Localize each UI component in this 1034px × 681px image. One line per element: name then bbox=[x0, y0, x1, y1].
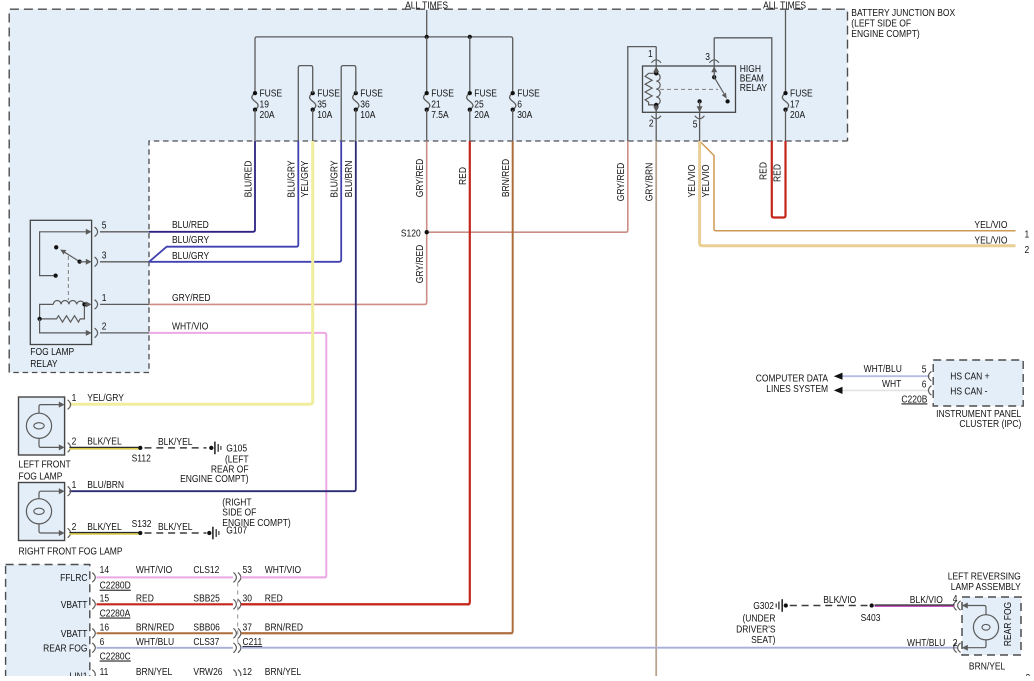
svg-text:5: 5 bbox=[922, 364, 927, 376]
svg-text:GRY/RED: GRY/RED bbox=[414, 245, 426, 284]
right front fog lamp bulb bbox=[26, 499, 51, 524]
high beam relay coil (inductor) bbox=[656, 73, 660, 105]
svg-text:12: 12 bbox=[243, 666, 252, 676]
left front fog lamp box bbox=[19, 397, 65, 455]
svg-text:RELAY: RELAY bbox=[740, 82, 768, 94]
svg-text:VRW26: VRW26 bbox=[193, 666, 222, 676]
svg-text:CLS12: CLS12 bbox=[193, 564, 219, 576]
wire RED fuse17 loop to relay pin 3 bbox=[772, 141, 786, 218]
svg-text:CLS37: CLS37 bbox=[193, 636, 219, 648]
fuse F25 20A bbox=[467, 93, 473, 110]
splice S132 bbox=[138, 531, 142, 535]
svg-text:BLU/BRN: BLU/BRN bbox=[343, 160, 355, 197]
wire GRY/RED fuse 21 to S120 bbox=[426, 141, 428, 232]
svg-text:RED: RED bbox=[758, 162, 770, 180]
high beam relay switch blade bbox=[714, 77, 724, 93]
svg-text:VBATT: VBATT bbox=[61, 628, 88, 640]
pin 2 of right front fog lamp bbox=[59, 530, 65, 536]
node coil top (pin 1) bbox=[654, 71, 658, 75]
wire WHT HS CAN - bbox=[842, 389, 930, 391]
splice S112 bbox=[138, 446, 142, 450]
node NC contact bbox=[54, 245, 58, 249]
svg-text:GRY/BRN: GRY/BRN bbox=[644, 163, 656, 202]
wire BRN/RED fuse 6 to VBATT row bbox=[241, 141, 513, 633]
left front fog lamp bulb bbox=[26, 413, 51, 438]
inner dashed border bbox=[9, 141, 847, 373]
svg-text:2: 2 bbox=[72, 436, 77, 448]
svg-text:2: 2 bbox=[953, 637, 958, 649]
svg-text:YEL/GRY: YEL/GRY bbox=[299, 160, 311, 197]
wire pin3 internal bbox=[80, 261, 89, 263]
svg-text:3: 3 bbox=[705, 51, 710, 63]
svg-text:C2280D: C2280D bbox=[100, 580, 131, 592]
wire fog relay pin2 lead bbox=[100, 332, 149, 334]
svg-text:BLK/VIO: BLK/VIO bbox=[823, 594, 856, 606]
ground G105 bbox=[209, 446, 213, 450]
wire pin1 internal bbox=[84, 303, 88, 305]
pin 6 row bbox=[92, 643, 95, 653]
outer dashed border bbox=[9, 9, 847, 372]
svg-text:WHT: WHT bbox=[882, 378, 901, 390]
svg-text:7.5A: 7.5A bbox=[431, 109, 449, 121]
wire staple feed to fuse 35 bbox=[298, 66, 312, 141]
wire BLK/YEL S112 to G105 (dashed) bbox=[145, 447, 207, 449]
wire GRY/RED S120 to high beam relay coil bbox=[427, 141, 628, 232]
in-line connector arcs bbox=[233, 643, 236, 653]
in-line connector arcs bbox=[233, 670, 236, 680]
dashed actuation link bbox=[660, 88, 718, 90]
splice S120 bbox=[425, 230, 429, 234]
svg-text:G105: G105 bbox=[226, 443, 247, 455]
in-line connector arcs bbox=[233, 572, 236, 582]
wire fuse 21 output bbox=[426, 110, 428, 141]
pin 4 of reversing lamp bbox=[962, 603, 968, 609]
svg-text:BRN/RED: BRN/RED bbox=[500, 159, 512, 197]
wire YEL/VIO relay pin5 to right pin 2 bbox=[700, 141, 1016, 246]
node switch common pin 3 bbox=[77, 259, 81, 263]
svg-text:5: 5 bbox=[693, 119, 698, 131]
wire BRN/RED right segment bbox=[241, 632, 513, 634]
ground G107 bbox=[207, 531, 211, 535]
svg-text:BLK/YEL: BLK/YEL bbox=[158, 436, 192, 448]
pin 15 row bbox=[92, 600, 95, 610]
svg-text:ALL TIMES: ALL TIMES bbox=[763, 0, 806, 12]
svg-text:2: 2 bbox=[1025, 244, 1030, 256]
svg-text:S112: S112 bbox=[132, 453, 151, 465]
fog relay resistor (parallel) bbox=[40, 304, 85, 322]
svg-text:16: 16 bbox=[100, 622, 109, 634]
wire BLU/GRY branch 2 to fuse 36 bbox=[149, 141, 341, 262]
wire fuse 25 output bbox=[469, 110, 471, 141]
junction node on bus at fuse 25 bbox=[468, 35, 472, 39]
node B coil/pin2 bbox=[37, 317, 41, 321]
pin 1 of fog lamp relay bbox=[86, 301, 92, 307]
svg-text:WHT/VIO: WHT/VIO bbox=[172, 321, 208, 333]
splice S403 bbox=[870, 603, 874, 607]
svg-text:10A: 10A bbox=[317, 109, 333, 121]
wire GRY/BRN relay pin2 down off page bbox=[655, 141, 657, 676]
wire BLK/YEL right lamp to S132 bbox=[69, 532, 140, 534]
wire fuse 19 output (gray inside box) bbox=[254, 110, 256, 141]
wire fuse 6 output bbox=[512, 110, 514, 141]
svg-text:4: 4 bbox=[953, 593, 958, 605]
in-line connector arcs bbox=[233, 628, 236, 638]
svg-text:14: 14 bbox=[100, 564, 110, 576]
wire fog relay pin5 lead bbox=[100, 231, 149, 233]
wire fuse 17 output bbox=[785, 110, 787, 141]
fuse F19 20A bbox=[252, 93, 258, 110]
pin 11 row bbox=[92, 670, 95, 680]
wire coil left leg bbox=[40, 304, 54, 319]
svg-text:LAMP ASSEMBLY: LAMP ASSEMBLY bbox=[951, 581, 1022, 593]
fog lamp relay box bbox=[30, 220, 91, 344]
wire RED segment left bbox=[97, 603, 233, 605]
svg-text:BLK/YEL: BLK/YEL bbox=[87, 436, 121, 448]
svg-text:BLU/BRN: BLU/BRN bbox=[87, 479, 124, 491]
wire WHT/BLU HS CAN + bbox=[842, 375, 930, 377]
svg-text:LEFT FRONT: LEFT FRONT bbox=[19, 459, 71, 471]
node pin 5 contact bbox=[697, 99, 701, 103]
svg-text:30: 30 bbox=[243, 593, 252, 605]
svg-text:WHT/BLU: WHT/BLU bbox=[864, 363, 902, 375]
pin 16 row bbox=[92, 629, 95, 639]
svg-text:WHT/BLU: WHT/BLU bbox=[907, 637, 945, 649]
wire staple feed to fuse 36 bbox=[341, 66, 356, 141]
svg-text:VBATT: VBATT bbox=[61, 599, 88, 611]
wire RED right segment bbox=[241, 603, 470, 605]
svg-text:RELAY: RELAY bbox=[30, 358, 58, 370]
svg-text:C2280A: C2280A bbox=[100, 608, 131, 620]
svg-text:WHT/VIO: WHT/VIO bbox=[136, 564, 172, 576]
rear fog bulb bbox=[973, 615, 998, 640]
wire all-times feed to fuse 17 bbox=[785, 10, 787, 93]
svg-text:HS CAN +: HS CAN + bbox=[950, 371, 990, 383]
wire fog relay pin1 lead bbox=[100, 303, 149, 305]
svg-text:53: 53 bbox=[243, 564, 252, 576]
svg-text:11: 11 bbox=[100, 666, 109, 676]
fog relay switch blade bbox=[65, 252, 80, 261]
svg-text:1: 1 bbox=[102, 292, 107, 304]
wire WHT/VIO fog relay pin2 to FFLRC bbox=[149, 333, 326, 578]
svg-text:ENGINE COMPT): ENGINE COMPT) bbox=[222, 517, 290, 529]
right front fog lamp box bbox=[19, 483, 65, 541]
wire RED fuse 25 to VBATT row bbox=[241, 141, 470, 604]
svg-text:FFLRC: FFLRC bbox=[60, 572, 87, 584]
svg-text:1: 1 bbox=[648, 48, 653, 60]
svg-text:RIGHT FRONT FOG LAMP: RIGHT FRONT FOG LAMP bbox=[19, 546, 123, 558]
svg-text:6: 6 bbox=[100, 636, 105, 648]
wire pin5 internal bbox=[40, 232, 89, 276]
svg-text:S403: S403 bbox=[861, 612, 881, 624]
wire pin2 internal bbox=[40, 319, 89, 333]
svg-text:GRY/RED: GRY/RED bbox=[172, 292, 211, 304]
svg-text:BLU/GRY: BLU/GRY bbox=[329, 160, 341, 198]
svg-text:LINES SYSTEM: LINES SYSTEM bbox=[766, 383, 828, 395]
svg-text:WHT/BLU: WHT/BLU bbox=[136, 636, 174, 648]
pin 1 of right front fog lamp bbox=[59, 488, 65, 494]
svg-text:LIN1: LIN1 bbox=[70, 671, 88, 676]
wire bus drop to fuse 25 bbox=[469, 37, 471, 93]
ground G302 bbox=[784, 603, 788, 607]
svg-text:20A: 20A bbox=[474, 109, 490, 121]
FFLRC connector shaded box bbox=[6, 565, 90, 681]
svg-text:G302: G302 bbox=[753, 600, 774, 612]
wire WHT/BLU segment left bbox=[97, 647, 233, 649]
svg-text:RED: RED bbox=[772, 164, 784, 182]
svg-text:WHT/VIO: WHT/VIO bbox=[265, 564, 301, 576]
svg-text:SEAT): SEAT) bbox=[751, 634, 775, 646]
svg-text:HS CAN -: HS CAN - bbox=[950, 386, 987, 398]
svg-text:YEL/VIO: YEL/VIO bbox=[974, 219, 1007, 231]
fuse F36 10A bbox=[353, 93, 359, 110]
svg-text:YEL/VIO: YEL/VIO bbox=[686, 164, 698, 197]
wire BLU/RED fuse19 to fog lamp relay pin 5 bbox=[149, 141, 255, 232]
wire WHT/VIO right segment to relay bbox=[241, 576, 326, 578]
svg-text:BRN/YEL: BRN/YEL bbox=[136, 666, 172, 676]
svg-text:YEL/VIO: YEL/VIO bbox=[974, 235, 1007, 247]
pin 1 of left front fog lamp bbox=[59, 402, 65, 408]
svg-text:FOG LAMP: FOG LAMP bbox=[30, 346, 74, 358]
svg-text:GRY/RED: GRY/RED bbox=[414, 159, 426, 198]
node NO contact bbox=[53, 273, 57, 277]
wire YEL/GRY fuse35 to left front fog lamp bbox=[69, 141, 312, 404]
svg-text:1: 1 bbox=[72, 392, 77, 404]
svg-text:2: 2 bbox=[649, 118, 654, 130]
wire bus in battery junction box bbox=[255, 37, 513, 93]
svg-text:15: 15 bbox=[100, 593, 109, 605]
wire fog relay pin3 lead bbox=[100, 261, 149, 263]
svg-text:CLUSTER (IPC): CLUSTER (IPC) bbox=[959, 418, 1021, 430]
high beam relay resistor (parallel) bbox=[645, 73, 656, 105]
svg-text:S120: S120 bbox=[401, 228, 421, 240]
wire WHT/BLU rear fog run to reversing lamp bbox=[241, 647, 958, 649]
svg-text:BLK/YEL: BLK/YEL bbox=[158, 521, 192, 533]
svg-text:C2280C: C2280C bbox=[100, 651, 131, 663]
pin 3 of fog lamp relay bbox=[86, 259, 92, 265]
svg-text:BLK/YEL: BLK/YEL bbox=[87, 521, 121, 533]
pin 14 row bbox=[92, 573, 95, 583]
wire all-times feed to bus bbox=[426, 10, 428, 37]
svg-text:REAR FOG: REAR FOG bbox=[43, 643, 87, 655]
svg-text:REAR FOG: REAR FOG bbox=[1002, 602, 1014, 646]
svg-text:3: 3 bbox=[1025, 672, 1030, 676]
svg-text:6: 6 bbox=[922, 379, 927, 391]
node A coil/pin1 bbox=[82, 302, 86, 306]
fog relay coil (inductor) bbox=[53, 300, 84, 304]
wire fuse 35 output bbox=[312, 110, 314, 141]
fuse F35 10A bbox=[310, 93, 316, 110]
high beam relay switch common node (pin 3) bbox=[712, 75, 716, 79]
wire BLU/GRY branch 1 to fuse 35 bbox=[149, 141, 298, 262]
pin 2 of left front fog lamp bbox=[59, 444, 65, 450]
wire YEL/VIO relay pin5 to right pin 1 bbox=[700, 141, 1016, 231]
wire WHT/VIO segment left bbox=[97, 576, 233, 578]
svg-text:1: 1 bbox=[72, 479, 77, 491]
wire BLK/VIO G302 to S403 (dashed) bbox=[790, 605, 868, 607]
svg-text:30A: 30A bbox=[517, 109, 533, 121]
high beam relay open contact bbox=[725, 99, 729, 103]
battery junction box / fog lamp relay shaded region bbox=[9, 9, 847, 372]
svg-text:5: 5 bbox=[102, 220, 107, 232]
svg-text:C211: C211 bbox=[243, 636, 263, 648]
svg-text:1: 1 bbox=[1025, 229, 1030, 241]
node coil bottom (pin 2) bbox=[654, 103, 658, 107]
svg-text:BRN/RED: BRN/RED bbox=[265, 622, 303, 634]
pin 6 of IPC bbox=[928, 386, 931, 396]
svg-text:10A: 10A bbox=[360, 109, 376, 121]
fuse F6 30A bbox=[510, 93, 516, 110]
svg-text:BRN/RED: BRN/RED bbox=[136, 622, 174, 634]
svg-text:3: 3 bbox=[102, 250, 107, 262]
svg-text:SBB25: SBB25 bbox=[193, 593, 219, 605]
wire relay pin 3 to fuse 17 run bbox=[714, 38, 772, 141]
svg-text:BLU/RED: BLU/RED bbox=[243, 160, 255, 197]
svg-text:BLU/RED: BLU/RED bbox=[172, 219, 209, 231]
pin 2 of fog lamp relay bbox=[86, 330, 92, 336]
svg-text:ENGINE COMPT): ENGINE COMPT) bbox=[851, 28, 919, 40]
wire BLK/VIO S403 to lamp bbox=[875, 605, 955, 607]
fuse F21 7.5A bbox=[424, 93, 430, 110]
fuse F17 20A bbox=[782, 93, 788, 110]
svg-text:YEL/GRY: YEL/GRY bbox=[87, 392, 124, 404]
svg-text:YEL/VIO: YEL/VIO bbox=[700, 164, 712, 197]
pin 5 of fog lamp relay bbox=[86, 229, 92, 235]
svg-text:BLK/VIO: BLK/VIO bbox=[910, 594, 943, 606]
svg-text:20A: 20A bbox=[259, 109, 275, 121]
wire BLK/YEL left lamp to S112 bbox=[69, 447, 140, 449]
svg-text:BLU/GRY: BLU/GRY bbox=[286, 160, 298, 198]
svg-text:ALL TIMES: ALL TIMES bbox=[405, 0, 448, 12]
wire GRY/RED S120 down to fog lamp relay pin 1 bbox=[149, 232, 427, 304]
svg-text:S132: S132 bbox=[132, 518, 152, 530]
connector boundary dashed line bbox=[237, 583, 239, 645]
svg-text:GRY/RED: GRY/RED bbox=[615, 163, 627, 202]
svg-text:BRN/YEL: BRN/YEL bbox=[969, 661, 1005, 673]
svg-text:RED: RED bbox=[136, 593, 154, 605]
svg-text:20A: 20A bbox=[790, 109, 806, 121]
pin 5 of IPC bbox=[928, 371, 931, 381]
svg-text:2: 2 bbox=[72, 521, 77, 533]
wire fuse 36 output bbox=[355, 110, 357, 141]
pin 2 of reversing lamp bbox=[962, 645, 968, 651]
wire bus drop to fuse 21 bbox=[426, 37, 428, 93]
svg-text:BRN/YEL: BRN/YEL bbox=[265, 666, 301, 676]
svg-text:BLU/GRY: BLU/GRY bbox=[172, 234, 210, 246]
svg-text:37: 37 bbox=[243, 622, 252, 634]
wire BRN/RED segment left bbox=[97, 632, 233, 634]
instrument panel cluster (IPC) shaded box bbox=[933, 360, 1023, 406]
wire BLU/BRN fuse36 to right front fog lamp bbox=[69, 141, 355, 491]
junction node on bus at fuse 21 bbox=[425, 35, 429, 39]
high beam relay box bbox=[643, 66, 736, 112]
svg-text:ENGINE COMPT): ENGINE COMPT) bbox=[180, 473, 248, 485]
svg-text:RED: RED bbox=[265, 593, 283, 605]
wire relay pin 1 to coil feed bbox=[628, 47, 656, 141]
svg-text:RED: RED bbox=[457, 167, 469, 185]
left reversing lamp assembly shaded box bbox=[962, 597, 1021, 655]
svg-text:FOG LAMP: FOG LAMP bbox=[19, 471, 63, 483]
dashed actuation link bbox=[67, 256, 69, 300]
svg-text:BLU/GRY: BLU/GRY bbox=[172, 250, 210, 262]
in-line connector arcs bbox=[233, 599, 236, 609]
wire BLK/YEL S132 to G107 (dashed) bbox=[145, 532, 207, 534]
svg-text:C220B: C220B bbox=[901, 394, 927, 406]
svg-text:SBB06: SBB06 bbox=[193, 622, 219, 634]
svg-text:2: 2 bbox=[102, 321, 107, 333]
